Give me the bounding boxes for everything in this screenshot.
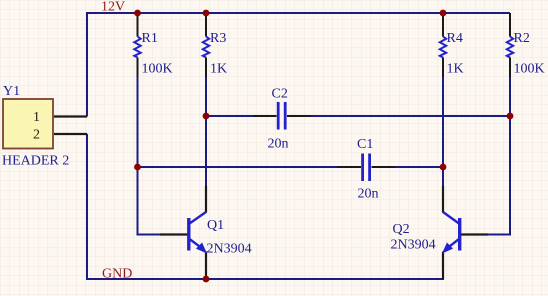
wire GND bottom rail — [87, 278, 444, 280]
svg-text:100K: 100K — [514, 62, 545, 77]
wire R1 node down to Q1 base row — [138, 167, 162, 235]
wire left vertical from 12V rail to header pin 1 — [86, 12, 88, 117]
transistor Q2 collector pin — [442, 186, 444, 213]
capacitor C1 pins — [337, 166, 395, 168]
svg-text:1: 1 — [33, 110, 40, 125]
svg-text:2N3904: 2N3904 — [391, 238, 436, 253]
svg-text:12V: 12V — [101, 0, 125, 15]
svg-text:R3: R3 — [210, 31, 226, 46]
svg-text:R2: R2 — [514, 31, 530, 46]
junction node R3/C2/Q1 collector — [203, 113, 210, 120]
wire C1 row left segment from R1 node — [138, 166, 339, 168]
svg-text:R4: R4 — [447, 31, 463, 46]
header Y1 body — [3, 99, 53, 149]
svg-text:2: 2 — [33, 128, 40, 143]
header pin 2 — [54, 133, 87, 135]
transistor Q2 emitter pin — [442, 252, 444, 280]
junction node Q1 emitter GND — [203, 276, 210, 283]
junction node R4/C1/Q2 collector — [440, 164, 447, 171]
wire R3 bottom to C2 node — [205, 77, 207, 116]
resistor R2 — [507, 37, 513, 58]
wire C1 row right segment to R4 column — [394, 166, 443, 168]
junction node R2/C2 — [507, 113, 514, 120]
svg-text:100K: 100K — [142, 62, 173, 77]
resistor R1 pins — [137, 13, 139, 78]
transistor Q2 base pin — [461, 233, 488, 235]
wire C2 row right segment to R2 column — [310, 115, 510, 117]
capacitor C1 — [363, 154, 370, 182]
svg-text:20n: 20n — [358, 187, 379, 202]
junction node at R1 top — [134, 10, 141, 17]
resistor R1 — [134, 37, 140, 58]
svg-text:Q2: Q2 — [393, 222, 410, 237]
wire R4 bottom through C1 node to Q2 collector — [442, 77, 444, 187]
junction node at R4 top — [440, 10, 447, 17]
svg-text:HEADER 2: HEADER 2 — [2, 154, 69, 169]
transistor Q1 emitter pin — [205, 252, 207, 280]
transistor Q1 — [189, 212, 206, 253]
svg-text:C2: C2 — [272, 87, 288, 102]
svg-text:GND: GND — [102, 267, 132, 282]
transistor Q1 base pin — [160, 233, 188, 235]
junction node at R3 top — [203, 10, 210, 17]
svg-text:20n: 20n — [268, 137, 289, 152]
header pin 1 — [54, 115, 87, 117]
resistor R4 pins — [442, 13, 444, 78]
transistor Q2 — [443, 212, 460, 253]
capacitor C2 — [278, 102, 285, 130]
capacitor C2 pins — [253, 115, 311, 117]
wire C2 node down to Q1 collector — [205, 116, 207, 187]
svg-text:1K: 1K — [210, 62, 227, 77]
resistor R4 — [440, 37, 446, 58]
wire left vertical from header pin 2 to GND rail — [86, 134, 88, 280]
svg-text:C1: C1 — [357, 137, 373, 152]
wire R1 bottom to C1 row — [137, 77, 139, 167]
svg-text:R1: R1 — [142, 31, 158, 46]
resistor R2 pins — [509, 13, 511, 78]
resistor R3 pins — [205, 13, 207, 78]
wire C2 row left segment — [206, 115, 253, 117]
wire R2 column down to Q2 base — [487, 77, 510, 235]
svg-text:Y1: Y1 — [3, 84, 20, 99]
svg-text:Q1: Q1 — [207, 218, 224, 233]
svg-text:2N3904: 2N3904 — [207, 242, 252, 257]
svg-text:1K: 1K — [447, 62, 464, 77]
transistor Q1 collector pin — [205, 186, 207, 213]
junction node R1/C1 — [134, 164, 141, 171]
resistor R3 — [203, 37, 209, 58]
wire 12V top rail — [87, 12, 510, 14]
